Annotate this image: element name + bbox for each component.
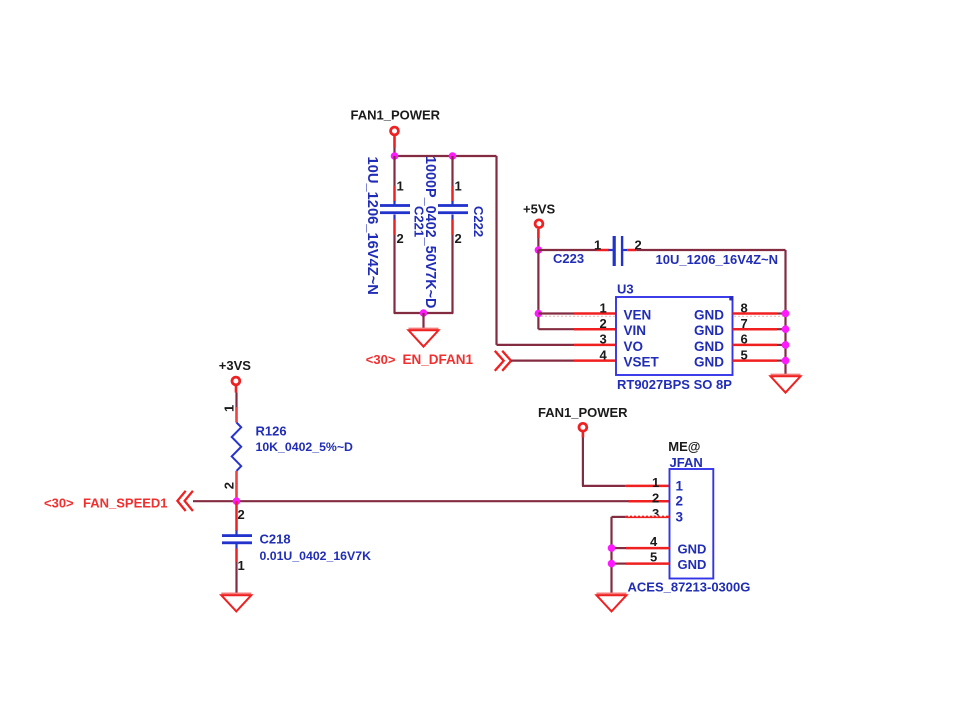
ground symbol (below C221/C222) [409, 328, 439, 331]
wire GND pin 5 [733, 359, 778, 362]
connector JFAN [670, 469, 714, 579]
svg-text:C218: C218 [260, 532, 291, 547]
node dot GND pin5 [782, 357, 790, 365]
svg-text:1: 1 [594, 238, 601, 253]
wire GND pin 8 [733, 312, 778, 315]
wire +3VS to R126 [235, 393, 237, 408]
wire GND pin 6 [733, 344, 778, 347]
svg-text:2: 2 [221, 482, 236, 489]
wire to pin 3 VO from FAN1_POWER [497, 344, 617, 346]
wire JFAN pin 3 to ground rail [612, 516, 670, 518]
svg-text:VEN: VEN [624, 308, 652, 323]
svg-text:2: 2 [455, 231, 462, 246]
svg-text:5: 5 [650, 550, 657, 565]
svg-text:+3VS: +3VS [219, 358, 251, 373]
svg-text:1: 1 [600, 300, 607, 315]
wire +5VS down [537, 238, 539, 250]
wire FAN1_POWER vertical from terminal [393, 148, 395, 157]
wire to pin 1 VEN [538, 312, 616, 314]
svg-text:3: 3 [600, 332, 607, 347]
svg-text:GND: GND [694, 339, 724, 354]
svg-text:GND: GND [694, 355, 724, 370]
svg-text:2: 2 [600, 316, 607, 331]
wire FAN_SPEED1 horizontal to JFAN pin 2 [193, 500, 670, 502]
wire C223 pin2 to GND rail [636, 249, 785, 251]
svg-text:4: 4 [600, 347, 608, 362]
svg-text:GND: GND [678, 557, 707, 572]
svg-text:FAN1_POWER: FAN1_POWER [538, 405, 628, 420]
svg-text:10U_1206_16V4Z~N: 10U_1206_16V4Z~N [364, 157, 380, 295]
svg-text:GND: GND [694, 323, 724, 338]
capacitor C221 (left vertical branch) [380, 156, 410, 313]
wire artifact dotted under pin 1 [541, 315, 615, 317]
node dot GND pin8 [782, 310, 790, 318]
svg-text:VO: VO [624, 339, 644, 354]
svg-text:VIN: VIN [624, 323, 647, 338]
wire FAN1_POWER horizontal top rail [394, 155, 497, 157]
wire to pin 4 VSET [511, 360, 616, 362]
svg-text:1: 1 [238, 558, 245, 573]
wire artifact dotted on pin 3 [628, 515, 668, 517]
svg-text:ME@: ME@ [668, 439, 700, 454]
svg-text:EN_DFAN1: EN_DFAN1 [403, 352, 474, 367]
node dot GND pin6 [782, 341, 790, 349]
wire JFAN pin 5 [612, 562, 670, 564]
svg-text:2: 2 [238, 507, 245, 522]
power symbol +5VS [523, 202, 555, 239]
off-page connector EN_DFAN1 [366, 351, 511, 371]
svg-text:1000P_0402_50V7K~D: 1000P_0402_50V7K~D [422, 156, 438, 308]
ground symbol (U3 GND rail) [771, 374, 801, 377]
resistor R126 [232, 407, 242, 494]
wire stem to ground [422, 313, 424, 330]
wire C218 to ground [235, 562, 237, 594]
svg-text:3: 3 [676, 509, 684, 524]
node junction dot bottom rail [420, 309, 428, 317]
wire bottom rail joining C221/C222 [394, 312, 454, 314]
op-amp U3 regulator RT9027BPS [616, 296, 733, 375]
svg-text:GND: GND [694, 308, 724, 323]
power symbol FAN1_POWER (top) [351, 108, 441, 148]
svg-text:10U_1206_16V4Z~N: 10U_1206_16V4Z~N [656, 252, 779, 267]
capacitor C218 [222, 501, 252, 562]
svg-text:<30>: <30> [366, 352, 396, 367]
svg-text:2: 2 [676, 494, 684, 509]
capacitor C222 (right vertical branch) [438, 156, 468, 313]
svg-text:2: 2 [652, 490, 659, 505]
node dot GND pin7 [782, 325, 790, 333]
node dot JFAN pin 5 [608, 560, 616, 568]
svg-text:1: 1 [676, 478, 684, 493]
svg-text:0.01U_0402_16V7K: 0.01U_0402_16V7K [260, 549, 372, 563]
svg-text:FAN1_POWER: FAN1_POWER [351, 108, 441, 123]
wire vertical down to VO [495, 156, 497, 345]
wire R126 to junction [235, 494, 238, 501]
power symbol FAN1_POWER (JFAN) [538, 405, 628, 438]
wire FAN1_POWER down to JFAN pin 1 [582, 438, 670, 486]
svg-text:4: 4 [650, 534, 658, 549]
wire +5VS vertical to VEN/VIN [537, 250, 539, 329]
svg-text:GND: GND [678, 542, 707, 557]
svg-text:1: 1 [455, 179, 462, 194]
svg-text:VSET: VSET [624, 355, 660, 370]
wire GND pin 7 [733, 328, 778, 331]
node junction dot at VEN [535, 310, 543, 318]
capacitor C223 (horizontal) [597, 236, 637, 266]
svg-text:1: 1 [397, 179, 404, 194]
svg-text:<30>: <30> [44, 495, 74, 510]
svg-text:C223: C223 [553, 251, 584, 266]
ground symbol (JFAN) [597, 592, 627, 595]
wire artifact dotted under pin 8 [734, 315, 783, 317]
off-page connector FAN_SPEED1 [44, 491, 193, 511]
wire to pin 2 VIN [538, 328, 616, 330]
svg-text:JFAN: JFAN [670, 455, 703, 470]
svg-text:FAN_SPEED1: FAN_SPEED1 [83, 495, 168, 510]
wire +5VS to C223 pin 1 [538, 249, 596, 251]
svg-text:C222: C222 [471, 206, 486, 237]
node junction dot +5VS / C223 [535, 246, 543, 254]
node dot JFAN pin 4 [608, 544, 616, 552]
wire ground rail vertical (JFAN) [610, 517, 612, 594]
svg-text:1: 1 [652, 475, 659, 490]
power symbol +3VS [219, 358, 251, 392]
svg-text:3: 3 [652, 506, 659, 521]
svg-text:+5VS: +5VS [523, 202, 555, 217]
svg-text:2: 2 [397, 231, 404, 246]
wire GND rail vertical [784, 250, 786, 376]
svg-text:ACES_87213-0300G: ACES_87213-0300G [628, 579, 751, 594]
svg-text:1: 1 [221, 405, 236, 412]
node junction dot FAN_SPEED1 [233, 497, 241, 505]
node junction dot at C221 top [391, 152, 399, 160]
wire JFAN pin 4 [612, 547, 670, 549]
svg-text:U3: U3 [617, 282, 634, 297]
svg-text:10K_0402_5%~D: 10K_0402_5%~D [256, 440, 354, 454]
ground symbol (C218) [221, 592, 251, 595]
svg-text:RT9027BPS SO 8P: RT9027BPS SO 8P [617, 377, 732, 392]
node junction dot at C222 top [449, 152, 457, 160]
svg-text:R126: R126 [256, 424, 287, 439]
